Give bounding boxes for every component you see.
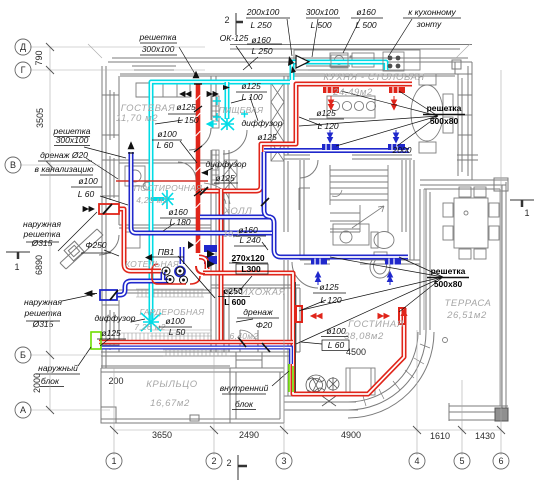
leader diffusor pish — [250, 97, 258, 121]
leader o160 L180 — [163, 223, 175, 231]
svg-text:ОК-125: ОК-125 — [220, 33, 249, 43]
leader F250 — [104, 250, 119, 256]
svg-text:диффузор: диффузор — [241, 118, 282, 128]
black flags at unit — [145, 250, 215, 268]
black fan triangle kitchen hood line — [288, 56, 309, 74]
svg-text:КУХНЯ - СТОЛОВАЯ: КУХНЯ - СТОЛОВАЯ — [323, 72, 424, 83]
cyan diffuser pishchevaya — [221, 118, 234, 130]
svg-text:ø100: ø100 — [157, 129, 177, 139]
leader 300x100 top — [312, 19, 318, 57]
svg-text:диффузор: диффузор — [94, 313, 135, 323]
LEAD_START — [58, 19, 443, 386]
svg-text:26,51м2: 26,51м2 — [446, 310, 487, 321]
svg-text:300х100: 300х100 — [142, 44, 175, 54]
svg-text:1: 1 — [111, 456, 116, 466]
svg-text:6: 6 — [498, 456, 503, 466]
svg-text:к кухонному: к кухонному — [408, 7, 456, 17]
svg-text:6890: 6890 — [34, 255, 44, 275]
blue grille kitchen 2 — [388, 144, 405, 150]
south entry door leaves — [236, 352, 262, 368]
leader diffusor hall — [202, 168, 213, 173]
blue grille kitchen 1 — [322, 144, 339, 150]
SW chamfer bay — [60, 229, 103, 269]
cyan small arrows pish — [207, 121, 217, 127]
leader o125 L120 kitchen — [299, 117, 322, 126]
cyan diffuser wardrobe — [141, 312, 161, 332]
east wall living/terrace — [420, 189, 430, 335]
west wall window mullions — [102, 95, 119, 345]
leader o100 L60 guest — [180, 141, 197, 163]
svg-text:ø125: ø125 — [257, 132, 277, 142]
svg-text:ø125: ø125 — [319, 282, 339, 292]
axis bubbles bottom — [106, 453, 509, 469]
section mark 2 top — [236, 13, 243, 35]
svg-text:ГОСТИНАЯ: ГОСТИНАЯ — [348, 319, 404, 330]
leader 270x120 — [232, 262, 243, 263]
red duct o250 to entry and SE grille — [203, 273, 404, 394]
bathroom walls — [300, 160, 420, 264]
svg-text:200x100: 200x100 — [246, 7, 280, 17]
cooktop dots — [383, 52, 404, 71]
red riser pair to attic — [194, 84, 202, 253]
section mark 1 right — [510, 200, 534, 207]
svg-text:L 50: L 50 — [169, 327, 186, 337]
svg-text:А: А — [20, 405, 26, 415]
black arrow at red bar hall — [201, 170, 208, 176]
svg-text:КРЫЛЬЦО: КРЫЛЬЦО — [146, 379, 198, 390]
svg-text:3: 3 — [281, 456, 286, 466]
green indoor unit — [289, 364, 293, 392]
svg-text:4: 4 — [414, 456, 419, 466]
west exterior wall — [102, 66, 119, 368]
bottom dim texts — [152, 430, 495, 441]
chamfer hatch — [64, 241, 84, 261]
svg-text:L 150: L 150 — [177, 115, 198, 125]
black damper arrow on red riser top — [193, 72, 202, 85]
leader drain — [86, 158, 118, 179]
svg-text:ПОСТИРОЧНАЯ: ПОСТИРОЧНАЯ — [134, 183, 203, 193]
PV1 unit riser circles — [162, 267, 188, 284]
leader o125 L100 — [231, 99, 246, 103]
PV1 unit red elbow — [196, 257, 207, 274]
black double arrows guest — [180, 92, 191, 97]
hall south partition — [211, 285, 300, 352]
outer north wall — [108, 45, 472, 77]
red riser grille SE wall right — [399, 308, 405, 324]
red arrow at o250 end — [401, 308, 408, 316]
svg-text:ХОЛЛ: ХОЛЛ — [223, 206, 253, 217]
svg-text:решетка: решетка — [427, 103, 462, 113]
cyan stub laundry — [151, 197, 164, 201]
WALLS_START — [60, 45, 508, 424]
svg-text:3505: 3505 — [35, 108, 45, 128]
dining table round — [411, 85, 443, 141]
leader o125 L150 — [155, 120, 183, 124]
black slash dampers on south runs — [200, 187, 270, 352]
stairs — [330, 165, 388, 232]
section mark 1 left — [6, 252, 30, 259]
svg-text:L 60: L 60 — [328, 340, 345, 350]
black flag above unit — [188, 241, 194, 249]
kitchen island w stools — [327, 96, 375, 118]
red intake from west grille — [119, 209, 161, 271]
svg-text:ø125: ø125 — [176, 102, 196, 112]
south wall (gardrobe/living) — [101, 352, 360, 410]
svg-text:38,08м2: 38,08м2 — [344, 331, 384, 342]
svg-text:Б: Б — [20, 350, 26, 360]
svg-text:L 500: L 500 — [355, 20, 376, 30]
blue west riser — [131, 152, 408, 257]
leader hood — [388, 19, 412, 57]
svg-text:Д: Д — [20, 42, 26, 52]
SE curved wall — [348, 332, 434, 418]
hall/prihozhaya partition walls — [211, 76, 229, 352]
boiler room equipment — [124, 232, 140, 248]
svg-text:ø160: ø160 — [168, 207, 188, 217]
svg-text:1: 1 — [14, 262, 19, 272]
svg-text:ПИЩЕВАЯ: ПИЩЕВАЯ — [219, 105, 264, 115]
kitchen fan box on cyan — [331, 55, 348, 68]
cyan duct main loop — [151, 62, 386, 321]
svg-text:1430: 1430 — [475, 431, 495, 441]
svg-text:внутренний: внутренний — [220, 383, 269, 393]
svg-text:11,70 м2: 11,70 м2 — [116, 113, 158, 124]
svg-text:Г: Г — [21, 65, 26, 75]
dim ticks — [46, 43, 505, 434]
green outdoor unit box — [91, 332, 101, 349]
kitchen west lower wall — [284, 161, 288, 232]
svg-text:ø160: ø160 — [251, 35, 271, 45]
svg-text:2000: 2000 — [32, 373, 42, 393]
svg-text:блок: блок — [41, 376, 60, 386]
svg-text:дренаж Ø20: дренаж Ø20 — [40, 150, 88, 160]
kitchen bay window mullions — [457, 95, 478, 160]
terrace table and chairs — [454, 198, 488, 248]
blue kitchen extract run — [264, 151, 409, 218]
black double arrows pish — [207, 92, 218, 97]
FURN_START — [124, 50, 499, 406]
NE kitchen bay wall — [455, 62, 472, 180]
leader outdoor unit — [78, 347, 91, 366]
blue boiler intake — [117, 272, 168, 295]
svg-text:L 120: L 120 — [317, 121, 338, 131]
west rooms partitions — [119, 160, 211, 293]
svg-text:270х120: 270х120 — [231, 253, 264, 263]
svg-text:ø125: ø125 — [215, 173, 235, 183]
svg-text:ø160: ø160 — [238, 225, 258, 235]
svg-text:2: 2 — [226, 458, 231, 468]
svg-text:500х80: 500х80 — [434, 279, 463, 289]
leader o125 L120 living — [299, 300, 326, 311]
svg-text:L 600: L 600 — [224, 297, 246, 307]
leader o125 green — [100, 338, 110, 346]
svg-text:Ø315: Ø315 — [31, 238, 53, 248]
svg-text:ø100: ø100 — [165, 316, 185, 326]
svg-text:L 60: L 60 — [78, 189, 95, 199]
blue south run — [101, 348, 291, 365]
blue grille bath 1 — [311, 259, 327, 265]
svg-text:ø125: ø125 — [241, 81, 261, 91]
bathroom sink — [333, 224, 369, 245]
leader o160 L240 — [262, 242, 268, 250]
leader drain entry — [236, 319, 253, 322]
svg-text:L 250: L 250 — [251, 46, 272, 56]
leader reshetka300 west — [84, 147, 126, 158]
PV1 leader diagonal — [178, 256, 215, 298]
guest room furniture — [136, 83, 190, 97]
svg-text:ø125: ø125 — [316, 108, 336, 118]
svg-text:4,26 м2: 4,26 м2 — [136, 195, 168, 205]
leader reshetka300 top — [179, 47, 195, 74]
svg-text:200: 200 — [108, 376, 123, 386]
leader outside grille 1 — [58, 212, 97, 251]
terrace bench lower — [299, 188, 310, 210]
svg-text:2: 2 — [224, 15, 229, 25]
cyan diffuser laundry — [161, 190, 174, 209]
svg-text:зонту: зонту — [416, 19, 442, 29]
svg-text:24,49м2: 24,49м2 — [332, 87, 373, 98]
west wall window sills — [110, 90, 114, 350]
cyan branch pishchevaya — [225, 82, 230, 119]
svg-text:2000: 2000 — [392, 145, 412, 155]
svg-text:5: 5 — [459, 456, 464, 466]
entry door — [240, 330, 258, 348]
svg-text:ø100: ø100 — [326, 326, 346, 336]
red kitchen supply loop — [200, 84, 412, 191]
leader o160 L500 — [343, 19, 360, 53]
svg-text:решетка: решетка — [24, 308, 62, 318]
left dim texts — [32, 50, 45, 393]
terrace floor inner line — [424, 189, 500, 406]
blue boiler grille box — [100, 290, 118, 300]
black arrow west grille — [82, 206, 84, 208]
stairwell walls — [330, 160, 406, 232]
svg-text:решетка: решетка — [431, 266, 466, 276]
black double arrows west drain — [83, 207, 94, 212]
toilet — [374, 232, 394, 249]
leader diffusor wardrobe — [131, 319, 145, 322]
svg-text:наружная: наружная — [23, 219, 61, 229]
svg-text:L 500: L 500 — [310, 20, 331, 30]
kitchen/hall wall — [284, 76, 412, 159]
washing machine laundry — [125, 166, 145, 186]
door arcs — [99, 128, 318, 352]
svg-text:500х80: 500х80 — [430, 116, 459, 126]
terrace corner posts — [494, 178, 508, 191]
leader OK-125 — [236, 46, 252, 69]
svg-text:ø100: ø100 — [78, 176, 98, 186]
svg-text:ПВ1: ПВ1 — [158, 247, 175, 257]
black arrow boiler intake — [85, 291, 97, 296]
red side arrows living left — [311, 314, 322, 319]
svg-text:L 180: L 180 — [169, 217, 190, 227]
leader outside grille 2 — [62, 294, 95, 301]
leader indoor unit — [272, 371, 289, 386]
svg-text:790: 790 — [34, 50, 44, 65]
svg-text:L 240: L 240 — [239, 235, 260, 245]
cyan diffuser small — [213, 97, 248, 121]
svg-text:блок: блок — [235, 399, 254, 409]
red grille kitchen 2 — [389, 87, 405, 93]
blue unit connection boxes — [204, 245, 217, 264]
leader o250 L600 — [240, 276, 252, 290]
blue down arrows kitchen — [328, 130, 333, 143]
blue grille bath 2 — [385, 259, 401, 265]
black double arrows west south — [112, 374, 114, 376]
plant scribbles — [306, 375, 339, 406]
leader o100 L60 living — [301, 342, 322, 344]
red main vertical hall — [219, 189, 224, 342]
axis construction lines — [20, 44, 501, 455]
terrace outline — [420, 180, 508, 421]
prihozhaya east wall — [284, 260, 288, 396]
red west grille box — [99, 204, 119, 214]
svg-text:L 60: L 60 — [157, 140, 174, 150]
black flag on cyan branch — [223, 85, 230, 90]
red riser grille SE wall left — [295, 282, 297, 392]
svg-text:Φ250: Φ250 — [85, 240, 107, 250]
sofa living — [346, 368, 375, 395]
red south run — [99, 340, 293, 345]
svg-text:2: 2 — [211, 456, 216, 466]
svg-text:В: В — [10, 160, 16, 170]
PV1 unit blue drop — [175, 247, 185, 277]
PV1 unit outline — [152, 264, 200, 284]
svg-text:300x100: 300x100 — [306, 7, 339, 17]
chimney shaft x-hatch — [212, 83, 284, 190]
svg-text:4900: 4900 — [341, 430, 361, 440]
red drain line — [116, 180, 208, 182]
svg-text:1: 1 — [524, 208, 529, 218]
black arrow on blue west riser top — [128, 142, 134, 153]
svg-text:наружный: наружный — [38, 363, 78, 373]
porch outline — [101, 368, 284, 423]
north wall window sills — [132, 66, 350, 70]
svg-text:ГАРДЕРОБНАЯ: ГАРДЕРОБНАЯ — [139, 307, 204, 317]
svg-text:ø160: ø160 — [356, 7, 376, 17]
red down arrows kitchen — [329, 96, 334, 110]
wardrobe comb hatching — [121, 289, 230, 356]
svg-text:L300: L300 — [241, 264, 261, 274]
svg-text:ТЕРРАСА: ТЕРРАСА — [445, 298, 492, 309]
svg-text:КОТЕЛЬНАЯ: КОТЕЛЬНАЯ — [125, 259, 179, 269]
svg-text:1610: 1610 — [430, 431, 450, 441]
svg-text:L 120: L 120 — [320, 295, 341, 305]
value label boxes — [236, 264, 349, 351]
kitchen counter — [294, 50, 420, 70]
svg-text:Φ20: Φ20 — [256, 320, 273, 330]
svg-text:L 100: L 100 — [241, 92, 262, 102]
underline strokes for labels — [26, 18, 469, 410]
blue up arrows bath — [316, 272, 321, 285]
svg-text:дренаж: дренаж — [243, 307, 274, 317]
svg-text:2490: 2490 — [239, 430, 259, 440]
svg-text:L 250: L 250 — [250, 20, 271, 30]
svg-text:наружная: наружная — [24, 297, 62, 307]
leaders reshetka500 top — [299, 91, 438, 146]
leaders reshetka500 bottom — [296, 257, 443, 344]
leader 200x100 — [287, 19, 292, 56]
svg-text:решетка: решетка — [139, 32, 177, 42]
svg-text:ø125: ø125 — [101, 328, 121, 338]
red side arrows living right — [378, 314, 389, 319]
porch steps right — [230, 368, 236, 423]
svg-text:16,67м2: 16,67м2 — [150, 398, 190, 409]
axis bubbles left — [5, 39, 31, 418]
red grille kitchen 1 — [323, 87, 339, 93]
section mark 2 bottom — [238, 455, 247, 480]
svg-text:диффузор: диффузор — [205, 159, 246, 169]
svg-text:Ø315: Ø315 — [32, 319, 54, 329]
svg-text:6,40м2: 6,40м2 — [230, 331, 259, 341]
leader o100 west — [100, 196, 128, 205]
leader o160 L250 — [243, 57, 258, 70]
svg-text:3650: 3650 — [152, 430, 172, 440]
svg-text:в канализацию: в канализацию — [35, 164, 95, 174]
